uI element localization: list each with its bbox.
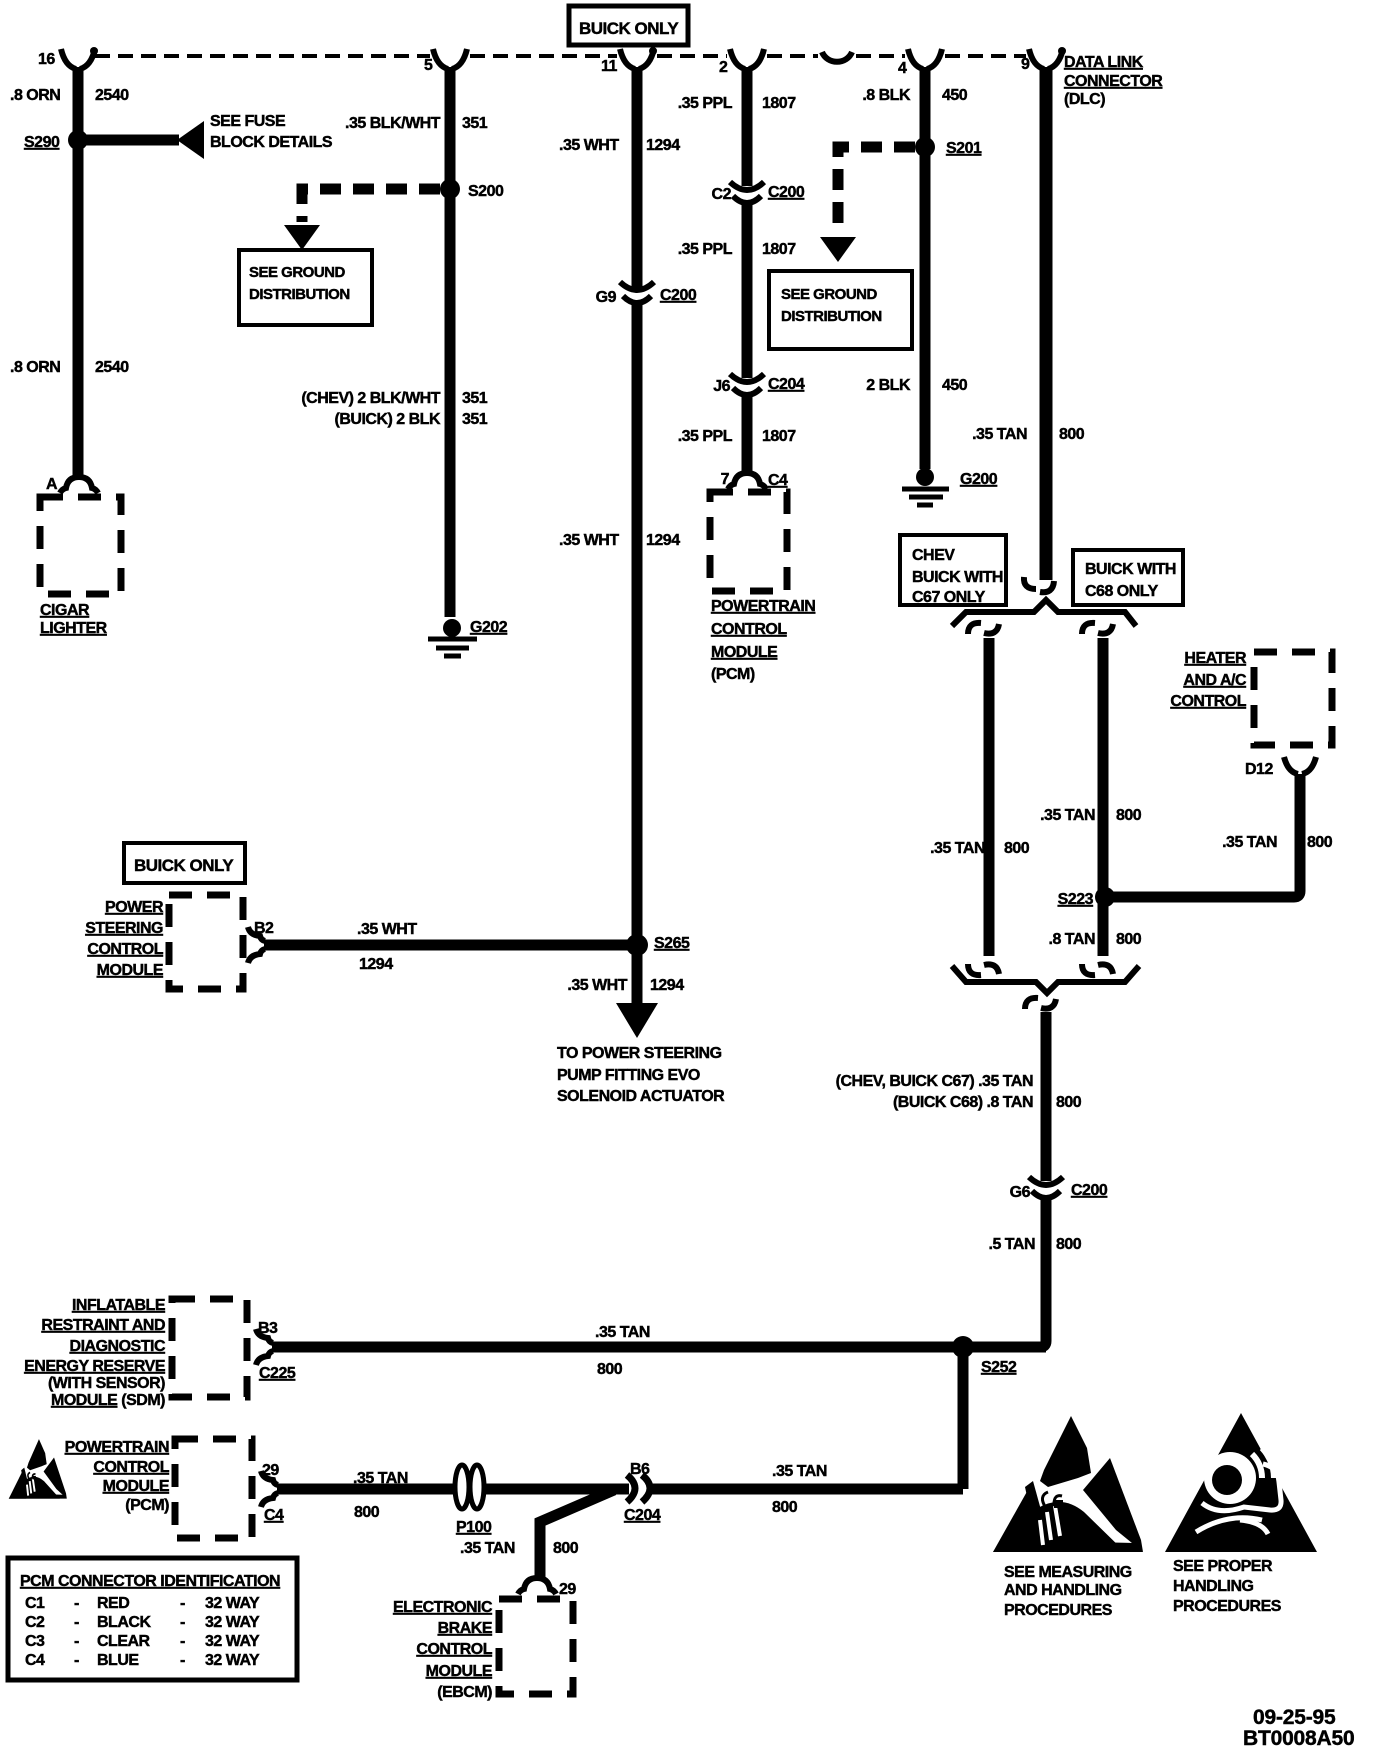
svg-text:G200: G200 [960, 471, 998, 488]
svg-text:1294: 1294 [650, 977, 684, 994]
svg-text:C200: C200 [1071, 1182, 1108, 1199]
svg-text:-: - [74, 1652, 79, 1669]
svg-text:RED: RED [97, 1595, 129, 1612]
svg-text:CONTROL: CONTROL [93, 1459, 169, 1476]
svg-text:SEE GROUND: SEE GROUND [781, 286, 878, 303]
svg-text:S201: S201 [946, 140, 982, 157]
svg-text:.5 TAN: .5 TAN [989, 1236, 1035, 1253]
svg-text:BT0008A50: BT0008A50 [1243, 1727, 1354, 1750]
svg-text:2: 2 [719, 59, 728, 76]
svg-text:-: - [180, 1614, 185, 1631]
splice S265 [626, 934, 648, 956]
box CHEV BUICK WITH C67 ONLY [900, 535, 1006, 606]
svg-text:C200: C200 [660, 287, 697, 304]
heater and a/c control box [1254, 652, 1332, 745]
splice S201 [915, 137, 935, 157]
inflatable restraint SDM box [172, 1299, 247, 1397]
connector C2 C200 [730, 182, 764, 203]
wire S290 to fuse arrow [78, 135, 179, 146]
svg-text:SEE MEASURING: SEE MEASURING [1004, 1564, 1132, 1581]
svg-text:800: 800 [1116, 807, 1142, 824]
svg-text:CONTROL: CONTROL [87, 941, 163, 958]
pin 9 cavity [1029, 47, 1066, 69]
svg-text:P100: P100 [456, 1519, 492, 1536]
svg-text:.35 TAN: .35 TAN [353, 1470, 408, 1487]
svg-text:MODULE: MODULE [426, 1663, 493, 1680]
svg-text:SEE PROPER: SEE PROPER [1173, 1558, 1273, 1575]
svg-text:.35 TAN: .35 TAN [930, 840, 985, 857]
cigar lighter box [40, 497, 121, 594]
svg-text:CONTROL: CONTROL [711, 621, 787, 638]
svg-text:.35 TAN: .35 TAN [595, 1324, 650, 1341]
svg-text:C4: C4 [25, 1652, 45, 1669]
svg-text:-: - [180, 1652, 185, 1669]
svg-text:C3: C3 [25, 1633, 45, 1650]
svg-text:32 WAY: 32 WAY [205, 1614, 260, 1631]
svg-text:POWERTRAIN: POWERTRAIN [711, 598, 815, 615]
svg-text:G202: G202 [470, 619, 508, 636]
svg-text:1294: 1294 [646, 532, 680, 549]
svg-text:BUICK ONLY: BUICK ONLY [134, 856, 234, 875]
svg-text:800: 800 [1059, 426, 1085, 443]
svg-text:DISTRIBUTION: DISTRIBUTION [249, 286, 350, 303]
pin 4 cavity [908, 49, 942, 69]
connector J6 C204 [730, 374, 764, 395]
wire right branch C68 [1098, 638, 1109, 956]
powertrain control module box (top) [710, 492, 787, 591]
svg-text:C67 ONLY: C67 ONLY [912, 589, 986, 606]
esd triangle (small, PCM) [9, 1439, 67, 1499]
arrow (down) to see ground distribution [284, 225, 320, 250]
svg-text:PCM CONNECTOR IDENTIFICATION: PCM CONNECTOR IDENTIFICATION [20, 1573, 280, 1590]
svg-text:.8 BLK: .8 BLK [862, 87, 911, 104]
svg-text:2 BLK: 2 BLK [866, 377, 911, 394]
svg-text:351: 351 [462, 390, 488, 407]
svg-text:.35 TAN: .35 TAN [1040, 807, 1095, 824]
merge bracket (bottom) [952, 966, 1139, 993]
svg-text:(PCM): (PCM) [711, 666, 755, 683]
svg-text:1294: 1294 [646, 137, 680, 154]
wire pin4 to G200 [920, 67, 931, 469]
connector G6 C200 [1029, 1177, 1063, 1198]
dashed wire S200 to ground dist arrow [302, 189, 440, 222]
svg-text:11: 11 [601, 58, 618, 75]
svg-text:2540: 2540 [95, 87, 129, 104]
svg-text:C225: C225 [259, 1365, 296, 1382]
svg-text:C200: C200 [768, 184, 805, 201]
svg-text:09-25-95: 09-25-95 [1253, 1706, 1336, 1729]
splice S252 [952, 1336, 974, 1358]
connector G9 C200 [620, 282, 654, 303]
svg-text:450: 450 [942, 87, 968, 104]
inline connector P100 [455, 1465, 579, 1557]
svg-text:BRAKE: BRAKE [438, 1620, 493, 1637]
svg-text:C2: C2 [712, 186, 732, 203]
ground G200 [916, 468, 934, 486]
svg-text:800: 800 [1116, 931, 1142, 948]
svg-text:-: - [74, 1633, 79, 1650]
svg-text:S252: S252 [981, 1359, 1017, 1376]
svg-text:351: 351 [462, 411, 488, 428]
svg-text:C4: C4 [264, 1507, 284, 1524]
svg-text:32 WAY: 32 WAY [205, 1652, 260, 1669]
svg-text:32 WAY: 32 WAY [205, 1595, 260, 1612]
svg-text:CHEV: CHEV [912, 547, 955, 564]
svg-text:800: 800 [597, 1361, 623, 1378]
svg-text:.35 PPL: .35 PPL [678, 428, 733, 445]
svg-text:1807: 1807 [762, 95, 796, 112]
svg-text:.35 TAN: .35 TAN [772, 1463, 827, 1480]
wavy connector bottom of right branch [1082, 964, 1113, 975]
svg-text:29: 29 [559, 1581, 576, 1598]
svg-text:CONTROL: CONTROL [1170, 693, 1246, 710]
svg-text:S223: S223 [1058, 891, 1094, 908]
diagonal wire C204 to EBCM [540, 1490, 614, 1577]
svg-text:MODULE: MODULE [711, 644, 778, 661]
wire S252 down to EBCM run [958, 1352, 969, 1489]
pin 29 cup at EBCM [518, 1578, 556, 1594]
svg-text:HEATER: HEATER [1184, 650, 1247, 667]
arrow SEE FUSE BLOCK DETAILS [177, 121, 204, 159]
svg-text:800: 800 [354, 1504, 380, 1521]
wire pin16 to cigar lighter [73, 67, 84, 480]
wire S223 to heater D12 [1105, 774, 1300, 897]
svg-text:(EBCM): (EBCM) [437, 1684, 492, 1701]
svg-text:.8 ORN: .8 ORN [10, 359, 60, 376]
svg-text:.35 TAN: .35 TAN [460, 1540, 515, 1557]
splice S200 [440, 179, 460, 199]
box SEE GROUND DISTRIBUTION (right) [769, 271, 912, 349]
warning triangle airbag (see proper) [1165, 1413, 1317, 1552]
electronic brake control module box [499, 1599, 573, 1694]
pin 11 cavity [620, 47, 657, 69]
dashed wire S201 to ground dist arrow [838, 147, 915, 234]
svg-text:BUICK WITH: BUICK WITH [1085, 561, 1176, 578]
pin 16 cavity [61, 47, 98, 69]
svg-text:-: - [180, 1633, 185, 1650]
svg-text:-: - [74, 1595, 79, 1612]
svg-text:450: 450 [942, 377, 968, 394]
wire pin5 to G202 [445, 67, 456, 617]
wire pin11 down (to S265 arrow) [632, 67, 643, 287]
svg-text:POWERTRAIN: POWERTRAIN [65, 1439, 169, 1456]
svg-text:BLOCK DETAILS: BLOCK DETAILS [210, 134, 333, 151]
wire pin2 down to PCM [742, 67, 753, 186]
svg-text:DISTRIBUTION: DISTRIBUTION [781, 308, 882, 325]
dashed connector row [95, 54, 1026, 58]
svg-text:C2: C2 [25, 1614, 45, 1631]
svg-text:TO POWER STEERING: TO POWER STEERING [557, 1045, 722, 1062]
svg-text:SOLENOID ACTUATOR: SOLENOID ACTUATOR [557, 1088, 725, 1105]
svg-text:S200: S200 [468, 183, 504, 200]
svg-text:.35 TAN: .35 TAN [1222, 834, 1277, 851]
wavy connector top of left branch [968, 623, 999, 634]
svg-text:LIGHTER: LIGHTER [40, 620, 108, 637]
wire left branch C67 [984, 638, 995, 956]
svg-text:800: 800 [772, 1499, 798, 1516]
svg-text:32 WAY: 32 WAY [205, 1633, 260, 1650]
box BUICK ONLY (middle) [124, 843, 245, 883]
arrow (down) to see ground distribution (right) [820, 237, 856, 262]
svg-text:.35 PPL: .35 PPL [678, 95, 733, 112]
svg-text:800: 800 [1056, 1236, 1082, 1253]
svg-text:B6: B6 [630, 1461, 650, 1478]
svg-text:PROCEDURES: PROCEDURES [1173, 1598, 1282, 1615]
svg-text:BLACK: BLACK [97, 1614, 151, 1631]
svg-text:(BUICK C68) .8 TAN: (BUICK C68) .8 TAN [893, 1094, 1033, 1111]
svg-text:J6: J6 [713, 378, 730, 395]
svg-text:G9: G9 [596, 289, 617, 306]
svg-text:STEERING: STEERING [85, 920, 163, 937]
warning triangle ESD (see measuring) [993, 1416, 1143, 1552]
svg-text:CONTROL: CONTROL [416, 1641, 492, 1658]
svg-text:.35 PPL: .35 PPL [678, 241, 733, 258]
label DATA LINK CONNECTOR (DLC) [1064, 54, 1163, 108]
svg-text:ELECTRONIC: ELECTRONIC [393, 1599, 493, 1616]
svg-text:(BUICK) 2 BLK: (BUICK) 2 BLK [335, 411, 441, 428]
svg-text:ENERGY RESERVE: ENERGY RESERVE [24, 1358, 166, 1375]
svg-text:C204: C204 [768, 376, 805, 393]
svg-text:351: 351 [462, 115, 488, 132]
splice S290 [68, 130, 88, 150]
svg-text:MODULE: MODULE [103, 1478, 170, 1495]
svg-text:BUICK WITH: BUICK WITH [912, 569, 1003, 586]
wavy connector at DLC wire end [1024, 577, 1054, 592]
merged wire down to S252 [1041, 1012, 1052, 1181]
svg-text:CONNECTOR: CONNECTOR [1064, 73, 1163, 90]
svg-text:C4: C4 [768, 472, 788, 489]
svg-text:MODULE: MODULE [97, 962, 164, 979]
svg-text:1807: 1807 [762, 428, 796, 445]
svg-text:800: 800 [1307, 834, 1333, 851]
svg-text:9: 9 [1021, 56, 1030, 73]
svg-text:800: 800 [1004, 840, 1030, 857]
svg-text:.35 WHT: .35 WHT [559, 137, 619, 154]
svg-text:BLUE: BLUE [97, 1652, 139, 1669]
svg-text:AND HANDLING: AND HANDLING [1004, 1582, 1122, 1599]
svg-text:.35 WHT: .35 WHT [559, 532, 619, 549]
svg-text:HANDLING: HANDLING [1173, 1578, 1253, 1595]
wavy connector top of merged wire [1025, 998, 1056, 1009]
svg-text:C1: C1 [25, 1595, 45, 1612]
box SEE GROUND DISTRIBUTION (left) [239, 250, 372, 325]
svg-text:(DLC): (DLC) [1064, 91, 1105, 108]
svg-text:C68 ONLY: C68 ONLY [1085, 583, 1159, 600]
split bracket (top) [952, 600, 1136, 626]
pin 5 cavity [433, 49, 467, 69]
svg-text:(CHEV) 2 BLK/WHT: (CHEV) 2 BLK/WHT [301, 390, 440, 407]
svg-text:DATA LINK: DATA LINK [1064, 54, 1144, 71]
svg-text:C204: C204 [624, 1507, 661, 1524]
wire pin29 to P100 to C204 to S252 corner [277, 1484, 963, 1495]
svg-text:800: 800 [553, 1540, 579, 1557]
connector B6 C204 chevrons [624, 1461, 661, 1524]
wavy connector top of right branch [1082, 623, 1113, 634]
svg-text:800: 800 [1056, 1094, 1082, 1111]
svg-text:.35 TAN: .35 TAN [972, 426, 1027, 443]
svg-text:.8 ORN: .8 ORN [10, 87, 60, 104]
svg-text:2540: 2540 [95, 359, 129, 376]
svg-text:(CHEV, BUICK C67) .35 TAN: (CHEV, BUICK C67) .35 TAN [836, 1073, 1033, 1090]
wire B3/C225 to S252 [272, 1342, 1046, 1353]
svg-text:S290: S290 [24, 134, 60, 151]
svg-text:A: A [46, 476, 58, 493]
svg-text:MODULE (SDM): MODULE (SDM) [51, 1392, 165, 1409]
power steering control module box [169, 895, 243, 989]
svg-text:.8 TAN: .8 TAN [1049, 931, 1095, 948]
svg-text:DIAGNOSTIC: DIAGNOSTIC [70, 1338, 166, 1355]
svg-text:BUICK ONLY: BUICK ONLY [579, 19, 679, 38]
svg-text:CIGAR: CIGAR [40, 602, 90, 619]
svg-text:S265: S265 [654, 935, 690, 952]
svg-text:RESTRAINT AND: RESTRAINT AND [41, 1317, 165, 1334]
svg-text:POWER: POWER [105, 899, 164, 916]
svg-text:CLEAR: CLEAR [97, 1633, 151, 1650]
empty cavity arc [822, 52, 852, 62]
svg-text:D12: D12 [1245, 761, 1273, 778]
svg-text:16: 16 [38, 51, 55, 68]
svg-text:SEE FUSE: SEE FUSE [210, 113, 286, 130]
powertrain control module box (bottom) [175, 1439, 252, 1538]
svg-text:SEE GROUND: SEE GROUND [249, 264, 346, 281]
pin D12 cavity [1284, 757, 1316, 774]
svg-text:(PCM): (PCM) [125, 1497, 169, 1514]
table PCM CONNECTOR IDENTIFICATION [8, 1558, 297, 1680]
svg-text:-: - [180, 1595, 185, 1612]
ground G202 [443, 619, 461, 637]
box BUICK WITH C68 ONLY [1073, 550, 1183, 605]
svg-text:.35 WHT: .35 WHT [567, 977, 627, 994]
svg-text:.35 WHT: .35 WHT [357, 921, 417, 938]
svg-text:1807: 1807 [762, 241, 796, 258]
svg-text:AND A/C: AND A/C [1183, 672, 1247, 689]
svg-text:4: 4 [898, 60, 907, 77]
box BUICK ONLY (top) [569, 6, 688, 45]
svg-text:1294: 1294 [359, 956, 393, 973]
splice S223 [1095, 887, 1115, 907]
svg-text:G6: G6 [1010, 1184, 1031, 1201]
svg-text:PUMP FITTING EVO: PUMP FITTING EVO [557, 1067, 700, 1084]
arrow to power steering pump [616, 1003, 658, 1038]
svg-text:(WITH SENSOR): (WITH SENSOR) [48, 1375, 165, 1392]
svg-text:-: - [74, 1614, 79, 1631]
pin 2 cavity [730, 49, 764, 69]
wire B2 to S265 [264, 940, 637, 951]
svg-text:.35 BLK/WHT: .35 BLK/WHT [345, 115, 441, 132]
wire pin9 DLC down [1040, 67, 1053, 580]
svg-text:PROCEDURES: PROCEDURES [1004, 1602, 1113, 1619]
wavy connector bottom of left branch [968, 964, 999, 975]
svg-text:INFLATABLE: INFLATABLE [72, 1297, 166, 1314]
svg-text:5: 5 [424, 57, 433, 74]
